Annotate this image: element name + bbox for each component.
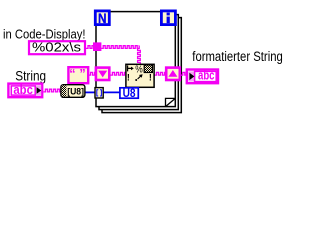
svg-text:[U8]: [U8] xyxy=(67,87,84,98)
svg-text:abc: abc xyxy=(198,68,215,82)
svg-text:N: N xyxy=(98,11,107,26)
svg-text:U8: U8 xyxy=(123,88,137,100)
svg-text:!: ! xyxy=(149,73,152,83)
svg-text:”: ” xyxy=(79,67,85,81)
svg-text:abc: abc xyxy=(13,82,33,97)
svg-text:%02x\s: %02x\s xyxy=(32,40,82,55)
svg-text:“: “ xyxy=(69,67,75,81)
svg-text:formatierter String: formatierter String xyxy=(192,49,282,64)
svg-text:!: ! xyxy=(127,73,130,83)
svg-text:%: % xyxy=(135,64,143,76)
